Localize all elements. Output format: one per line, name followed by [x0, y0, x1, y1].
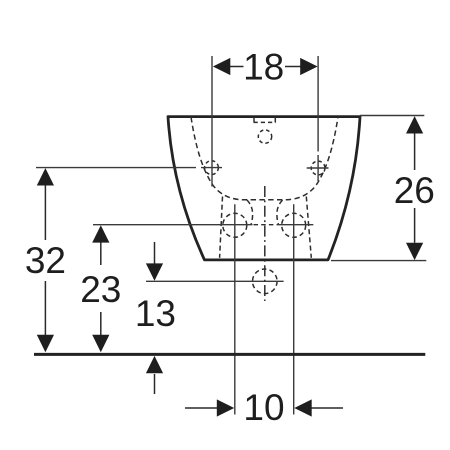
dim 26 line + arrows: [414, 134, 416, 243]
svg-text:13: 13: [135, 293, 176, 334]
body outline (ceramic front view): [168, 117, 360, 260]
funnel right (dashed): [277, 200, 283, 225]
drain hole (dashed circle): [252, 269, 277, 294]
tap hole (small dashed circle): [258, 130, 271, 143]
lower holes centre dashes between: [254, 224, 277, 226]
fixing hole lower-left (dashed): [223, 213, 247, 237]
lower-left hole centreline vertical (also ext. line of 10): [234, 204, 236, 414]
svg-text:26: 26: [394, 170, 435, 211]
fixing hole lower-right (dashed): [282, 213, 306, 237]
fixing hole upper-right (dashed): [311, 161, 325, 175]
basin inner rim (dashed): [191, 117, 338, 200]
fixing hole upper-right crosshair horizontal: [307, 167, 329, 169]
centre axis (dash-dot): [264, 186, 266, 301]
overflow notch (top center): [254, 118, 275, 123]
dim 26 ext line top: [360, 115, 424, 117]
dim 18 ext line right: [317, 56, 319, 181]
fixing hole upper-left (dashed): [205, 161, 219, 175]
floor line: [34, 353, 425, 356]
svg-text:23: 23: [80, 269, 121, 310]
dim 10 line + arrows (outside pointing in): [185, 407, 217, 409]
dim 23 ext line (to lower-left hole): [93, 224, 253, 226]
fixing hole upper-left crosshair horizontal: [201, 167, 222, 169]
dim 32 ext line (to upper-left hole): [36, 167, 196, 169]
leg outline right (dashed): [306, 197, 311, 258]
dim 23 line + arrows: [100, 242, 102, 335]
lower-right hole centreline vertical (also ext. line of 10): [293, 204, 295, 414]
svg-text:18: 18: [243, 46, 284, 87]
leg outline left (dashed): [220, 197, 223, 258]
dim 26 ext line bottom: [331, 260, 426, 262]
lower-right hole crosshair horizontal: [277, 224, 314, 226]
dim 18 line + arrows: [230, 66, 301, 68]
svg-text:32: 32: [25, 240, 66, 281]
funnel left (dashed): [247, 200, 253, 225]
dim 13 upper arrow (outside, pointing down): [154, 242, 156, 264]
dim 32 line + arrows: [44, 185, 46, 335]
svg-text:10: 10: [243, 387, 284, 428]
dim 13 lower arrow (below floor, pointing up): [154, 374, 156, 394]
dim 18 ext line left: [211, 56, 213, 187]
drain crosshair horizontal (ext. line of 13): [146, 280, 284, 282]
